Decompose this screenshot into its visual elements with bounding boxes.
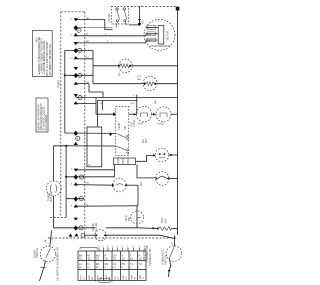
svg-text:2BU: 2BU: [137, 79, 142, 81]
svg-text:GR: GR: [141, 20, 145, 24]
svg-text:M2: M2: [105, 262, 109, 266]
svg-text:HOT: HOT: [138, 122, 144, 126]
svg-text:OR: OR: [86, 182, 90, 184]
svg-text:LID: LID: [115, 276, 117, 280]
svg-text:MOTOR: MOTOR: [165, 31, 169, 41]
svg-text:3BK: 3BK: [148, 40, 153, 42]
svg-text:FS: FS: [117, 72, 121, 76]
svg-text:SW: SW: [123, 125, 127, 130]
svg-text:1BU: 1BU: [148, 28, 153, 30]
svg-text:PRS: PRS: [123, 275, 125, 280]
svg-text:SWITCH: SWITCH: [164, 255, 168, 265]
svg-text:TEMP: TEMP: [117, 123, 121, 130]
svg-text:TMR: TMR: [132, 274, 134, 279]
svg-text:RES: RES: [160, 217, 164, 223]
svg-text:V: V: [170, 242, 174, 244]
svg-text:■ WIRING TO BE DISCONNECTED: ■ WIRING TO BE DISCONNECTED: [38, 37, 41, 74]
svg-text:SWITCH: SWITCH: [35, 248, 39, 258]
svg-text:LID SWITCH ASSEMBLY GR: LID SWITCH ASSEMBLY GR: [56, 247, 60, 281]
svg-text:GY: GY: [50, 237, 54, 241]
svg-text:WITH EMPTY TUB POSITION: WITH EMPTY TUB POSITION: [50, 44, 52, 76]
svg-text:BK: BK: [44, 239, 48, 243]
svg-text:TIMER: TIMER: [57, 80, 61, 88]
svg-text:GY: GY: [86, 82, 90, 84]
svg-text:LS: LS: [113, 262, 116, 266]
svg-text:300: 300: [164, 218, 168, 223]
svg-text:3GY: 3GY: [137, 76, 142, 78]
svg-text:COLD: COLD: [132, 120, 136, 127]
svg-text:▲ WIRING CONNECTOR POINTS: ▲ WIRING CONNECTOR POINTS: [40, 37, 43, 74]
svg-text:REV A 063000: REV A 063000: [45, 114, 48, 130]
svg-text:COLD: COLD: [157, 122, 164, 126]
svg-text:WH: WH: [139, 182, 143, 186]
svg-text:G: G: [78, 30, 80, 32]
svg-text:● GROUND MODULE SCREWS: ● GROUND MODULE SCREWS: [43, 40, 46, 74]
svg-text:FILTER: FILTER: [94, 223, 98, 232]
svg-text:LID SW: LID SW: [107, 13, 111, 22]
svg-text:BU: BU: [86, 57, 89, 59]
svg-text:START WINDING: START WINDING: [150, 44, 170, 48]
svg-text:W: W: [88, 267, 90, 269]
svg-text:BK: BK: [127, 217, 131, 221]
svg-text:J: J: [80, 228, 81, 230]
svg-text:TMR: TMR: [140, 274, 142, 279]
svg-text:HOT: HOT: [81, 274, 83, 279]
svg-text:2BK: 2BK: [155, 99, 157, 104]
svg-text:TERMINAL BD: TERMINAL BD: [148, 249, 152, 266]
svg-text:N: N: [88, 262, 90, 266]
svg-text:PS: PS: [122, 262, 126, 266]
svg-text:NOTE: ALL SWITCHES SHOWN: NOTE: ALL SWITCHES SHOWN: [46, 41, 49, 75]
svg-text:M1: M1: [96, 262, 100, 266]
svg-text:MOTOR: MOTOR: [49, 192, 53, 202]
svg-text:NEU: NEU: [89, 275, 91, 280]
svg-text:WH: WH: [144, 139, 148, 143]
svg-text:BU: BU: [96, 267, 99, 269]
